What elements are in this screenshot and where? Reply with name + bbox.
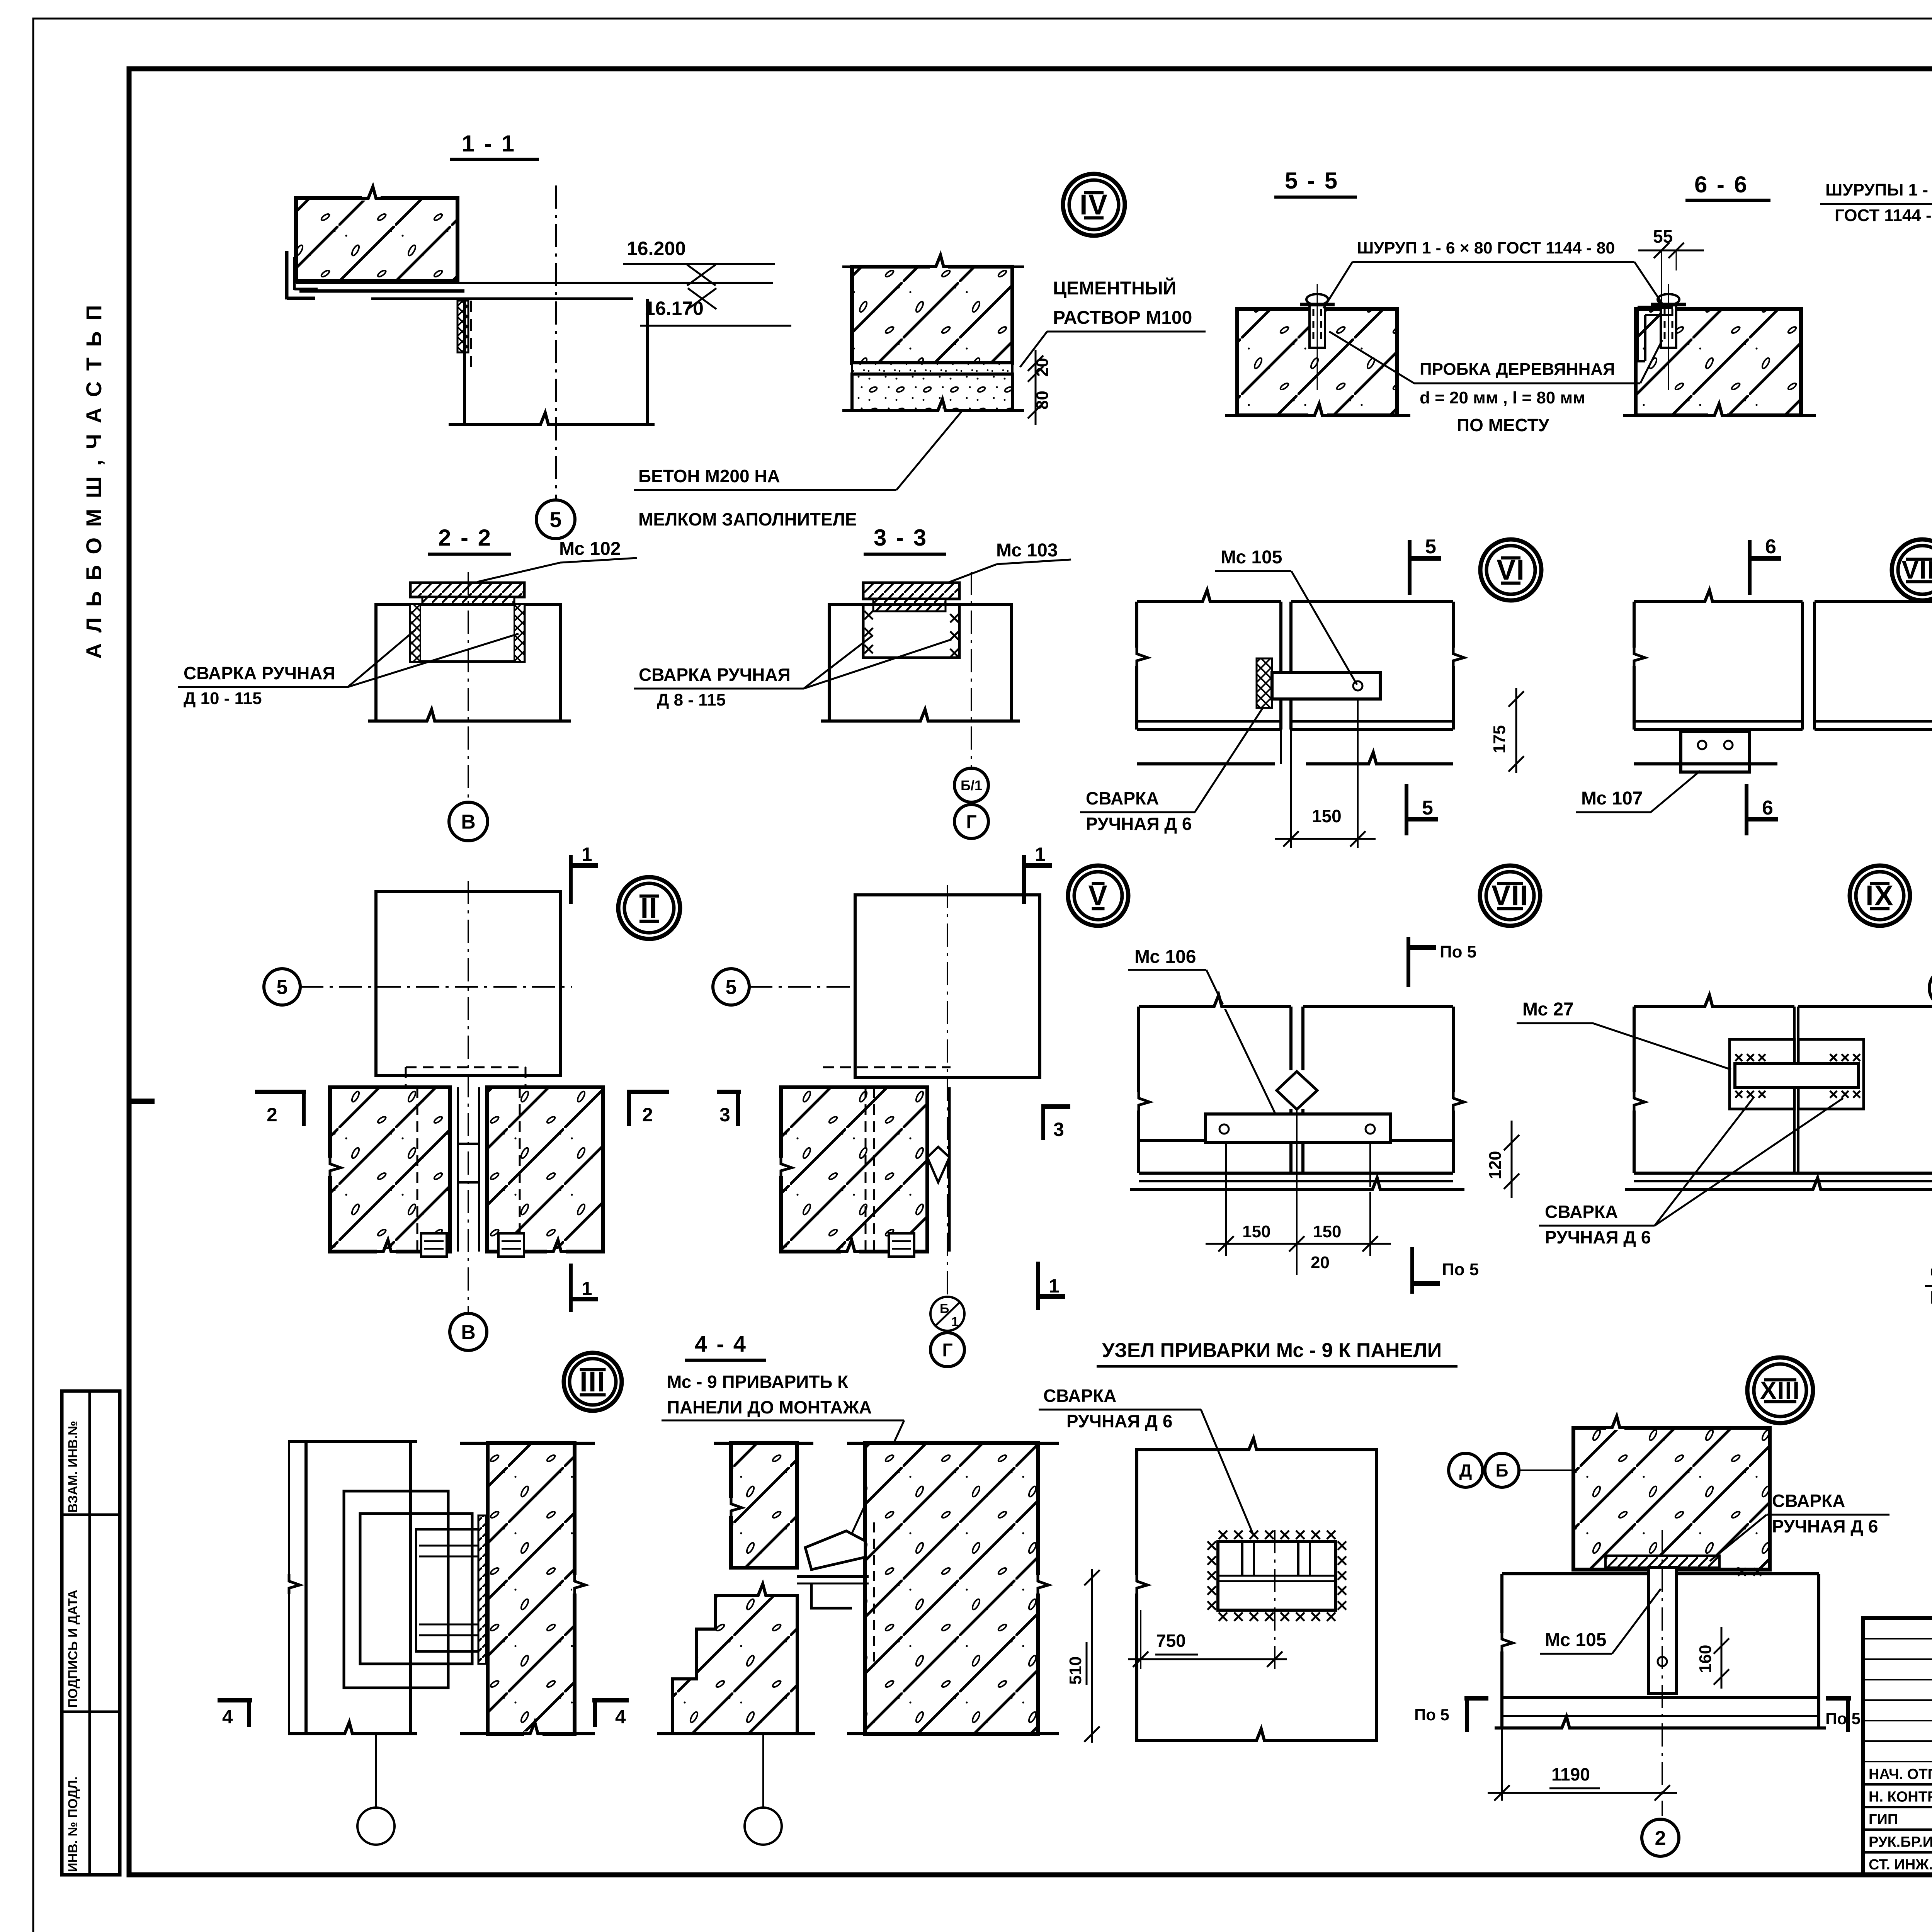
svg-text:Мс - 9 ПРИВАРИТЬ К: Мс - 9 ПРИВАРИТЬ К bbox=[667, 1372, 849, 1392]
svg-text:4: 4 bbox=[222, 1706, 233, 1728]
svg-text:СВАРКА РУЧНАЯ: СВАРКА РУЧНАЯ bbox=[184, 663, 335, 683]
svg-text:150: 150 bbox=[1242, 1222, 1270, 1241]
svg-text:5: 5 bbox=[549, 507, 561, 532]
svg-text:РУЧНАЯ Д 6: РУЧНАЯ Д 6 bbox=[1772, 1516, 1878, 1536]
svg-text:16.200: 16.200 bbox=[627, 238, 686, 259]
svg-text:120: 120 bbox=[1486, 1151, 1505, 1179]
svg-text:5: 5 bbox=[277, 976, 288, 999]
svg-text:55: 55 bbox=[1653, 226, 1673, 247]
svg-text:5: 5 bbox=[1425, 536, 1436, 558]
svg-text:БЕТОН М200 НА: БЕТОН М200 НА bbox=[638, 466, 780, 486]
svg-text:СТ. ИНЖ.: СТ. ИНЖ. bbox=[1869, 1857, 1932, 1873]
svg-text:16.170: 16.170 bbox=[645, 298, 704, 319]
svg-text:ИНВ. № ПОДЛ.: ИНВ. № ПОДЛ. bbox=[66, 1776, 80, 1872]
svg-text:20: 20 bbox=[1033, 358, 1052, 377]
svg-text:РУЧНАЯ Д 6: РУЧНАЯ Д 6 bbox=[1545, 1227, 1651, 1247]
svg-text:Мс 105: Мс 105 bbox=[1545, 1630, 1606, 1650]
svg-text:1: 1 bbox=[1035, 844, 1046, 865]
svg-text:А Л Ь Б О М Ш , Ч А С Т Ь: А Л Ь Б О М Ш , Ч А С Т Ь П bbox=[82, 303, 106, 659]
svg-text:20: 20 bbox=[1311, 1253, 1330, 1272]
svg-text:Мс 27: Мс 27 bbox=[1522, 999, 1574, 1020]
svg-text:1 - 1: 1 - 1 bbox=[462, 131, 516, 156]
svg-text:Д 10 - 115: Д 10 - 115 bbox=[184, 689, 262, 708]
svg-text:В: В bbox=[461, 1321, 476, 1344]
svg-text:150: 150 bbox=[1312, 806, 1342, 826]
svg-text:4: 4 bbox=[615, 1706, 626, 1728]
svg-text:ГОСТ 1144 - 80: ГОСТ 1144 - 80 bbox=[1835, 206, 1932, 225]
svg-text:3: 3 bbox=[1053, 1119, 1064, 1140]
svg-text:Мс 106: Мс 106 bbox=[1134, 947, 1196, 967]
svg-text:РУЧНАЯ Д 6: РУЧНАЯ Д 6 bbox=[1086, 814, 1192, 834]
svg-text:СВАРКА: СВАРКА bbox=[1043, 1386, 1116, 1406]
svg-text:Мс 105: Мс 105 bbox=[1221, 547, 1282, 568]
svg-text:175: 175 bbox=[1490, 725, 1509, 753]
svg-text:1: 1 bbox=[1049, 1275, 1060, 1297]
svg-text:Д 8 - 115: Д 8 - 115 bbox=[657, 690, 726, 709]
svg-text:2 - 2: 2 - 2 bbox=[438, 525, 492, 551]
svg-text:СВАРКА: СВАРКА bbox=[1930, 1262, 1932, 1282]
svg-text:Мс 107: Мс 107 bbox=[1581, 788, 1643, 809]
svg-text:Мс 102: Мс 102 bbox=[559, 539, 621, 559]
svg-text:УЗЕЛ ПРИВАРКИ Мс - 9 К ПАН: УЗЕЛ ПРИВАРКИ Мс - 9 К ПАНЕЛИ bbox=[1102, 1339, 1442, 1362]
svg-text:В: В bbox=[461, 811, 476, 833]
svg-text:2: 2 bbox=[1655, 1827, 1666, 1850]
svg-text:2: 2 bbox=[642, 1104, 653, 1126]
svg-text:1: 1 bbox=[582, 844, 592, 865]
svg-text:Б: Б bbox=[940, 1301, 949, 1316]
svg-text:1190: 1190 bbox=[1551, 1764, 1590, 1784]
svg-text:ПРОБКА ДЕРЕВЯННАЯ: ПРОБКА ДЕРЕВЯННАЯ bbox=[1420, 360, 1615, 379]
svg-text:ШУРУПЫ 1 - 6 × 80: ШУРУПЫ 1 - 6 × 80 bbox=[1825, 180, 1932, 199]
svg-text:Г: Г bbox=[942, 1340, 952, 1361]
svg-text:5: 5 bbox=[1422, 797, 1433, 819]
svg-text:150: 150 bbox=[1313, 1222, 1341, 1241]
svg-text:ШУРУП 1 - 6 × 80 ГОСТ 1144 - 8: ШУРУП 1 - 6 × 80 ГОСТ 1144 - 80 bbox=[1357, 239, 1615, 257]
svg-text:ЦЕМЕНТНЫЙ: ЦЕМЕНТНЫЙ bbox=[1053, 277, 1176, 299]
svg-text:ПО МЕСТУ: ПО МЕСТУ bbox=[1457, 415, 1550, 435]
svg-text:ГИП: ГИП bbox=[1869, 1811, 1898, 1828]
svg-text:510: 510 bbox=[1066, 1656, 1085, 1685]
svg-text:ВЗАМ. ИНВ.№: ВЗАМ. ИНВ.№ bbox=[66, 1421, 80, 1513]
svg-text:5: 5 bbox=[726, 976, 737, 999]
svg-text:Г: Г bbox=[966, 812, 976, 832]
svg-text:НАЧ. ОТП: НАЧ. ОТП bbox=[1869, 1766, 1932, 1782]
svg-text:4 - 4: 4 - 4 bbox=[695, 1332, 747, 1357]
svg-text:По 5: По 5 bbox=[1442, 1260, 1479, 1279]
svg-text:Н. КОНТР.: Н. КОНТР. bbox=[1869, 1789, 1932, 1805]
svg-text:3: 3 bbox=[719, 1104, 730, 1126]
svg-text:750: 750 bbox=[1156, 1631, 1186, 1651]
svg-text:РУЧНАЯ Д 6: РУЧНАЯ Д 6 bbox=[1930, 1287, 1932, 1308]
svg-text:6: 6 bbox=[1765, 536, 1776, 558]
svg-text:160: 160 bbox=[1696, 1645, 1715, 1673]
svg-text:СВАРКА: СВАРКА bbox=[1545, 1202, 1618, 1222]
svg-text:Б: Б bbox=[1495, 1461, 1508, 1481]
svg-text:РУК.БР.ИНЖ: РУК.БР.ИНЖ bbox=[1869, 1834, 1932, 1850]
svg-text:3 - 3: 3 - 3 bbox=[874, 525, 928, 551]
svg-text:2: 2 bbox=[267, 1104, 277, 1126]
svg-text:Д: Д bbox=[1459, 1461, 1472, 1481]
svg-text:1: 1 bbox=[582, 1278, 592, 1299]
svg-text:ПОДПИСЬ И ДАТА: ПОДПИСЬ И ДАТА bbox=[66, 1590, 80, 1708]
svg-text:По 5: По 5 bbox=[1440, 942, 1476, 961]
svg-text:6: 6 bbox=[1762, 797, 1773, 819]
svg-text:СВАРКА: СВАРКА bbox=[1772, 1491, 1845, 1511]
svg-text:1: 1 bbox=[951, 1315, 959, 1329]
svg-text:РАСТВОР М100: РАСТВОР М100 bbox=[1053, 308, 1192, 328]
svg-text:ПАНЕЛИ ДО МОНТАЖА: ПАНЕЛИ ДО МОНТАЖА bbox=[667, 1397, 872, 1417]
svg-text:Мс 103: Мс 103 bbox=[996, 540, 1058, 561]
svg-text:СВАРКА: СВАРКА bbox=[1086, 788, 1159, 808]
svg-text:5 - 5: 5 - 5 bbox=[1285, 168, 1339, 194]
svg-text:СВАРКА РУЧНАЯ: СВАРКА РУЧНАЯ bbox=[639, 665, 791, 685]
svg-text:МЕЛКОМ ЗАПОЛНИТЕЛЕ: МЕЛКОМ ЗАПОЛНИТЕЛЕ bbox=[638, 509, 857, 529]
svg-text:РУЧНАЯ Д 6: РУЧНАЯ Д 6 bbox=[1066, 1411, 1172, 1431]
svg-text:По 5: По 5 bbox=[1825, 1709, 1861, 1728]
svg-text:Б/1: Б/1 bbox=[961, 777, 982, 793]
svg-text:80: 80 bbox=[1033, 391, 1052, 410]
svg-text:6 - 6: 6 - 6 bbox=[1694, 172, 1748, 197]
svg-text:По 5: По 5 bbox=[1414, 1706, 1449, 1724]
svg-text:d = 20 мм , l = 80 мм: d = 20 мм , l = 80 мм bbox=[1420, 388, 1585, 407]
